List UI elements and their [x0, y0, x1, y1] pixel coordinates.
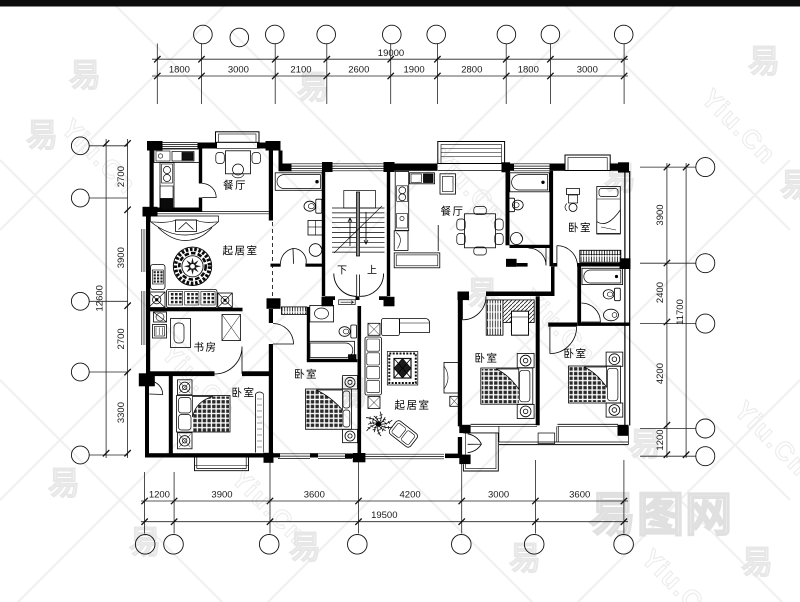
svg-text:2700: 2700 [116, 166, 127, 187]
bath1 left unit fixtures [275, 173, 323, 256]
bay window bedroom right [565, 155, 610, 171]
sofa set right living [365, 319, 430, 409]
svg-text:易: 易 [741, 544, 773, 580]
room labels [194, 179, 593, 412]
sofa set left living [149, 265, 233, 308]
dining table left unit [216, 151, 261, 178]
balcony bottom-left [195, 458, 249, 471]
dresser top-right bedroom [565, 189, 580, 212]
svg-text:11700: 11700 [675, 299, 686, 325]
bed master [569, 352, 623, 417]
svg-text:卧室: 卧室 [232, 386, 256, 399]
svg-text:易: 易 [780, 167, 800, 203]
svg-text:3000: 3000 [488, 490, 509, 501]
svg-text:3000: 3000 [577, 65, 598, 76]
svg-text:3900: 3900 [655, 204, 666, 225]
wardrobe bedroom3 [486, 300, 534, 335]
lintel beam [154, 212, 269, 214]
closet strip top-right bedroom [580, 250, 621, 262]
svg-text:卧室: 卧室 [475, 352, 499, 365]
kitchen counters left unit [154, 149, 200, 211]
svg-text:卧室: 卧室 [294, 368, 318, 381]
svg-text:3300: 3300 [116, 402, 127, 423]
dining table right unit [457, 207, 503, 256]
living room rug [173, 247, 211, 285]
walls [145, 143, 630, 459]
bay window dining left [216, 132, 260, 149]
columns [139, 141, 631, 464]
chaise right living [388, 419, 419, 448]
svg-text:3900: 3900 [211, 490, 232, 501]
bed bedroom2 (left unit mid) [306, 376, 358, 443]
svg-text:1200: 1200 [149, 490, 170, 501]
bay window dining right [438, 142, 505, 171]
svg-text:起居室: 起居室 [223, 244, 259, 257]
balcony right living [463, 433, 498, 471]
square rug right living [387, 352, 418, 386]
svg-text:上: 上 [367, 265, 377, 277]
svg-text:易: 易 [748, 43, 780, 79]
svg-text:卧室: 卧室 [568, 221, 592, 234]
svg-text:2100: 2100 [290, 65, 311, 76]
svg-text:19000: 19000 [378, 48, 404, 59]
bed bedroom1 (bottom-left) [177, 380, 231, 449]
svg-text:易: 易 [289, 529, 321, 565]
svg-text:易: 易 [129, 524, 161, 560]
svg-text:下: 下 [337, 266, 347, 277]
curved divider bedroom1/2 [256, 392, 264, 453]
svg-text:3900: 3900 [116, 247, 127, 268]
kitchen right unit [394, 172, 455, 252]
svg-text:19500: 19500 [371, 510, 397, 521]
svg-text:12600: 12600 [95, 285, 106, 311]
svg-text:卧室: 卧室 [564, 347, 588, 360]
svg-text:2600: 2600 [348, 65, 369, 76]
svg-text:易: 易 [26, 117, 58, 153]
dashed opening [272, 222, 274, 297]
svg-text:4200: 4200 [655, 363, 666, 384]
svg-text:3600: 3600 [304, 490, 325, 501]
TV cabinet right living [444, 363, 459, 407]
windows [142, 143, 550, 459]
svg-text:2700: 2700 [116, 328, 127, 349]
svg-text:易: 易 [48, 465, 80, 501]
svg-text:易图网: 易图网 [589, 488, 733, 541]
svg-text:1900: 1900 [404, 65, 425, 76]
svg-text:2400: 2400 [655, 282, 666, 303]
dimension lines [152, 44, 628, 105]
svg-text:餐厅: 餐厅 [441, 205, 465, 218]
svg-text:1200: 1200 [655, 429, 666, 450]
svg-text:3000: 3000 [228, 65, 249, 76]
terrace bottom right [471, 424, 629, 444]
master bath fixtures [582, 268, 623, 321]
bed bedroom3 [481, 354, 534, 419]
bath1 right unit fixtures [509, 173, 550, 245]
svg-text:2800: 2800 [461, 65, 482, 76]
study furniture [153, 312, 241, 348]
svg-text:起居室: 起居室 [395, 399, 431, 412]
stairwell [332, 191, 385, 257]
top border bar [0, 0, 800, 7]
svg-text:3600: 3600 [569, 490, 590, 501]
svg-text:易: 易 [509, 540, 541, 576]
plant right living [366, 412, 393, 436]
doors [149, 184, 600, 453]
svg-text:餐厅: 餐厅 [223, 179, 247, 192]
bath2 left unit fixtures [281, 305, 356, 359]
svg-text:书房: 书房 [194, 341, 218, 354]
TV cabinet left living [151, 216, 219, 241]
svg-text:1800: 1800 [169, 65, 190, 76]
svg-text:4200: 4200 [400, 490, 421, 501]
svg-text:易: 易 [69, 57, 101, 93]
bed top-right bedroom [597, 187, 621, 235]
svg-text:1800: 1800 [518, 65, 539, 76]
